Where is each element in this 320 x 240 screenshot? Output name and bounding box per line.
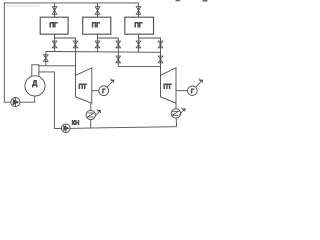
generator G1 [99, 86, 109, 96]
deaerator column [32, 65, 39, 77]
valve SG1 outlet left [52, 41, 57, 48]
steam generator PG2 [83, 17, 111, 34]
condenser K1 cooling arrow [95, 109, 101, 116]
valve SG3 outlet right [158, 41, 163, 48]
wire: condensate into deaerator [39, 72, 55, 129]
valve SG2 outlet right [116, 41, 121, 48]
wire: feed drop to SG3 [138, 3, 140, 17]
generator G1 output arrow [107, 78, 114, 87]
condenser K2 [171, 109, 180, 118]
svg-text:ПГ: ПГ [50, 22, 59, 29]
wire: header drop to deaerator steam line [45, 52, 47, 66]
wire: feedwater header (left riser + top run) [4, 3, 138, 102]
svg-text:КН: КН [72, 121, 79, 127]
wire: crossover line to turbine2 inlet [118, 65, 160, 67]
steam generator PG1 [40, 17, 68, 34]
valve feed SG1 [52, 7, 57, 15]
wire: feed drop to SG1 [54, 3, 56, 17]
wire: condensate bottom line [54, 127, 176, 129]
generator G2 [188, 86, 198, 96]
svg-text:ПТ: ПТ [79, 84, 87, 90]
svg-text:ПГ: ПГ [134, 22, 143, 29]
condensate pump KN [62, 124, 71, 133]
valve turbine2 inlet [158, 56, 163, 63]
turbine PT1 [76, 68, 92, 103]
wire: main steam header [46, 51, 161, 54]
wire: feed drop to SG2 [97, 3, 99, 17]
condenser K2 cooling arrow [179, 108, 185, 115]
svg-text:Г: Г [102, 89, 106, 95]
feed pump PN [11, 98, 20, 107]
wire: header drop at PG2 branch to crossover [117, 52, 119, 66]
deaerator tank D [25, 76, 45, 96]
wire: turbine1 shaft [92, 90, 99, 92]
wire: SG2 steam outlet + branch [98, 34, 119, 52]
wire: turbine2 exhaust [175, 103, 177, 109]
svg-text:Г: Г [191, 89, 195, 95]
wire: SG1 steam outlet + branch [55, 34, 76, 75]
wire: SG3 steam outlet + branch [139, 34, 161, 75]
valve SG3 outlet left [136, 41, 141, 48]
valve feed SG3 [136, 7, 141, 15]
valve SG2 outlet left [95, 41, 100, 48]
wire: condenser K2 drain [175, 118, 177, 127]
svg-text:ПТ: ПТ [163, 84, 171, 90]
valve deaerator steam [44, 55, 49, 62]
wire: turbine1 exhaust [90, 103, 92, 110]
wire: deaerator steam line to turbine1 inlet [39, 65, 76, 67]
valve SG1 outlet right [73, 41, 78, 48]
wire: deaerator outlet to feed pump [20, 96, 35, 102]
wire: turbine2 shaft [176, 90, 188, 92]
top edge speck 2 [203, 0, 208, 2]
turbine PT2 [161, 68, 177, 103]
condenser K1 [86, 110, 95, 119]
svg-text:Д: Д [32, 80, 37, 87]
wire: condenser K1 drain [90, 120, 92, 128]
valve crossover [116, 56, 121, 63]
svg-text:ПГ: ПГ [92, 22, 101, 29]
steam generator PG3 [125, 17, 154, 34]
top edge speck 1 [176, 0, 181, 1]
valve feed SG2 [95, 7, 100, 15]
faint erased-text band top-left [6, 5, 39, 7]
generator G2 output arrow [196, 78, 203, 87]
